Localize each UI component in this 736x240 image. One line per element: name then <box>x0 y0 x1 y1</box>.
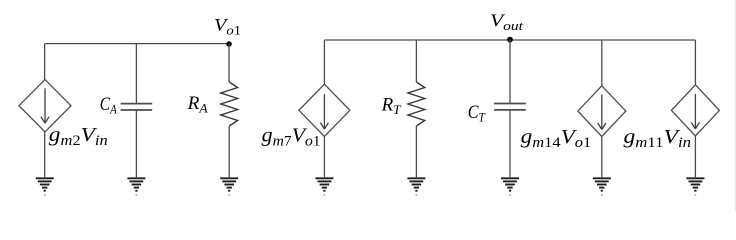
current source gm14Vo1 (diamond) <box>578 86 626 137</box>
svg-text:gm11Vin: gm11Vin <box>624 126 692 151</box>
node Vout <box>507 37 513 43</box>
capacitor CT <box>494 104 526 110</box>
svg-text:RA: RA <box>187 94 208 116</box>
svg-text:CT: CT <box>468 103 486 125</box>
svg-text:gm7Vo1: gm7Vo1 <box>262 125 321 150</box>
wire: capacitor CT to ground <box>509 110 511 177</box>
current source gm11Vin (diamond) <box>671 85 719 136</box>
wire: gm7 source to ground <box>323 137 325 178</box>
wire: gm2 source to ground <box>44 132 46 177</box>
svg-text:gm2Vin: gm2Vin <box>49 124 108 149</box>
ground <box>315 178 333 195</box>
wire: resistor RA to ground <box>228 126 230 177</box>
svg-text:CA: CA <box>100 95 117 117</box>
wire: gm11 source to ground <box>694 136 696 177</box>
resistor RT <box>408 82 425 126</box>
ground <box>593 178 611 195</box>
capacitor CA <box>121 104 153 110</box>
svg-text:Vout: Vout <box>490 11 523 33</box>
ground <box>686 178 704 195</box>
ground <box>127 178 145 195</box>
wire: top rail to resistor RT <box>415 40 417 82</box>
wire: top rail to capacitor CA <box>135 44 137 104</box>
current source gm7Vo1 (diamond) <box>299 84 350 136</box>
wire: resistor RT to ground <box>415 126 417 177</box>
wire: left circuit top rail <box>45 43 229 45</box>
svg-text:gm14Vo1: gm14Vo1 <box>521 126 592 151</box>
node Vo1 <box>226 41 232 47</box>
ground <box>501 178 519 195</box>
wire: top rail to gm2 source <box>44 44 46 80</box>
ground <box>407 178 425 195</box>
wire: top rail to gm11 source <box>694 40 696 85</box>
current source gm2Vin (diamond) <box>19 80 71 132</box>
wire: top rail to gm7 source <box>323 40 325 84</box>
wire: gm14 source to ground <box>601 137 603 178</box>
ground <box>36 178 54 195</box>
ground <box>220 178 238 195</box>
svg-text:Vo1: Vo1 <box>214 15 241 37</box>
wire: node Vout to capacitor CT <box>509 40 511 104</box>
svg-text:RT: RT <box>381 96 402 118</box>
wire: top rail to gm14 source <box>601 40 603 86</box>
wire: right circuit top rail <box>324 39 695 41</box>
wire: capacitor CA to ground <box>135 110 137 177</box>
resistor RA <box>221 82 238 126</box>
wire: node Vo1 to resistor RA <box>228 44 230 82</box>
border: right edge artifact <box>734 0 736 211</box>
